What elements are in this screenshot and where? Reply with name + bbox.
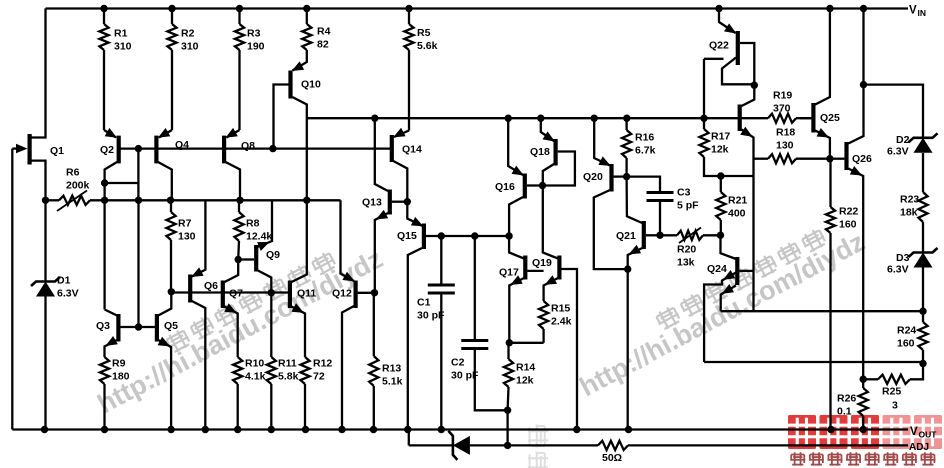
svg-text:Q17: Q17 <box>499 267 519 279</box>
resistor R13 <box>373 293 375 356</box>
svg-text:50Ω: 50Ω <box>602 452 622 464</box>
svg-text:6.3V: 6.3V <box>887 264 909 276</box>
svg-text:Q2: Q2 <box>100 144 114 156</box>
svg-text:ADJ: ADJ <box>909 442 929 453</box>
resistor R25 <box>878 375 910 384</box>
svg-text:D1: D1 <box>57 275 71 287</box>
svg-text:370: 370 <box>773 103 791 115</box>
resistor R18 <box>754 158 769 160</box>
svg-text:R7: R7 <box>178 218 192 230</box>
svg-text:R18: R18 <box>776 127 795 139</box>
node Q12 base dot <box>371 289 378 296</box>
diode D3 <box>922 222 924 253</box>
transistor Q22 <box>736 31 740 65</box>
transistor Q2 <box>117 136 121 164</box>
svg-text:R10: R10 <box>245 358 264 370</box>
wire Q24 emitter1 line <box>704 361 923 363</box>
transistor Q11 <box>288 281 292 309</box>
resistor R21 <box>720 176 722 192</box>
svg-text:IN: IN <box>918 8 927 18</box>
node Q13 base dot <box>404 198 411 205</box>
resistor R10 <box>233 357 242 384</box>
svg-text:Q14: Q14 <box>402 144 422 156</box>
svg-text:400: 400 <box>728 208 746 220</box>
svg-text:R14: R14 <box>516 362 535 374</box>
resistor R26 <box>859 388 868 416</box>
svg-text:R6: R6 <box>66 167 80 179</box>
svg-text:Q18: Q18 <box>530 146 550 158</box>
resistor R19 <box>765 117 768 119</box>
node R24 bottom dot <box>919 360 926 367</box>
node R8 bottom dot <box>235 256 242 263</box>
svg-text:160: 160 <box>839 219 857 231</box>
svg-text:Q7: Q7 <box>229 288 243 300</box>
svg-text:190: 190 <box>247 41 265 53</box>
node Q16 base dot <box>539 182 546 189</box>
svg-text:R21: R21 <box>728 195 747 207</box>
node R16 bottom dot <box>623 173 630 180</box>
resistor 50ohm <box>598 441 628 450</box>
resistor R5 <box>408 9 410 25</box>
transistor Q24 <box>735 257 739 285</box>
diode D1 <box>31 277 60 286</box>
wire Q26 collector to VIN <box>862 9 864 85</box>
transistor Q18 <box>553 139 557 166</box>
wire base line Q3 Q5 <box>118 326 156 328</box>
svg-text:D3: D3 <box>896 252 910 264</box>
svg-text:Q8: Q8 <box>241 140 255 152</box>
svg-text:V: V <box>909 5 917 17</box>
resistor R11 <box>267 357 276 384</box>
svg-text:180: 180 <box>112 371 130 383</box>
svg-text:R22: R22 <box>839 206 858 218</box>
capacitor C1 <box>440 236 442 285</box>
watermark faint mark bottom center <box>528 424 548 447</box>
svg-text:82: 82 <box>317 39 329 51</box>
svg-text:Q21: Q21 <box>616 230 636 242</box>
svg-text:160: 160 <box>897 338 915 350</box>
svg-text:Q4: Q4 <box>175 139 189 151</box>
node R24 top dot <box>919 308 926 315</box>
node Q26 collector dot <box>860 81 867 88</box>
resistor R3 <box>238 9 240 25</box>
transistor Q25 <box>811 103 815 133</box>
wire common base line <box>119 147 392 149</box>
svg-text:R2: R2 <box>181 28 195 40</box>
svg-text:13k: 13k <box>677 257 695 269</box>
node C2 R14 dot <box>504 407 511 414</box>
svg-text:R23: R23 <box>900 194 919 206</box>
resistor R6 variable <box>59 196 90 205</box>
svg-text:Q15: Q15 <box>397 230 417 242</box>
wire R17 node to Q23 emitter line <box>721 175 754 177</box>
resistor R4 <box>306 9 308 25</box>
svg-text:310: 310 <box>181 41 199 53</box>
watermark red text <box>788 415 816 449</box>
resistor R16 <box>625 118 627 130</box>
wire Q2 collector to base line <box>105 182 139 184</box>
node R6 line dots <box>101 197 108 204</box>
node Q1 source dot <box>42 197 49 204</box>
capacitor C2 <box>474 236 476 341</box>
svg-text:R13: R13 <box>382 363 401 375</box>
wire D2 branch top <box>864 85 924 138</box>
svg-text:6.7k: 6.7k <box>635 145 656 157</box>
svg-text:R25: R25 <box>882 386 901 398</box>
svg-text:Q25: Q25 <box>820 112 840 124</box>
node Q21 emitter dot <box>624 265 631 272</box>
wire Q21 emitter to output rail <box>627 269 629 429</box>
transistor Q12 <box>354 281 358 309</box>
svg-text:Q11: Q11 <box>297 288 316 300</box>
svg-text:12k: 12k <box>711 144 729 156</box>
transistor Q8 <box>222 136 226 164</box>
wire vertical from base dot <box>137 200 139 327</box>
svg-text:5.6k: 5.6k <box>417 40 438 52</box>
wire Q24 emitter2 line <box>721 310 923 312</box>
svg-text:12k: 12k <box>516 375 534 387</box>
svg-text:18k: 18k <box>900 207 918 219</box>
svg-text:Q24: Q24 <box>707 263 727 275</box>
svg-text:R5: R5 <box>417 27 431 39</box>
svg-text:3: 3 <box>892 400 898 412</box>
wire second rail <box>307 117 765 119</box>
svg-text:Q5: Q5 <box>164 320 178 332</box>
svg-text:Q22: Q22 <box>709 40 729 52</box>
node Q25 emitter dot <box>826 155 833 162</box>
node bottom rail dots <box>41 426 48 433</box>
node R25 R26 dot <box>860 376 867 383</box>
transistor Q13 <box>388 190 392 215</box>
wire R6 node line <box>46 199 60 201</box>
svg-text:C1: C1 <box>417 297 431 309</box>
transistor Q16 <box>523 174 527 199</box>
transistor Q21 <box>642 221 646 249</box>
node base line dots <box>135 145 142 152</box>
svg-text:V: V <box>910 426 918 438</box>
node Q2 collector dot <box>101 179 108 186</box>
svg-text:4.1k: 4.1k <box>245 371 266 383</box>
transistor Q4 <box>154 136 158 164</box>
wire VIN top rail <box>46 7 909 9</box>
svg-text:6.3V: 6.3V <box>57 288 79 300</box>
transistor Q3 <box>116 314 120 342</box>
svg-text:OUT: OUT <box>919 430 938 440</box>
svg-text:R20: R20 <box>677 244 696 256</box>
diode D2 <box>909 133 938 142</box>
transistor Q1 <box>28 134 32 165</box>
svg-text:5 pF: 5 pF <box>677 200 699 212</box>
transistor Q7 <box>221 281 225 309</box>
diode zener on ADJ line <box>448 431 457 460</box>
resistor R8 <box>238 200 240 212</box>
svg-text:30 pF: 30 pF <box>417 310 445 322</box>
svg-text:R9: R9 <box>112 358 126 370</box>
svg-text:D2: D2 <box>896 134 910 146</box>
svg-text:R17: R17 <box>711 131 730 143</box>
transistor Q6 <box>188 275 192 303</box>
node ADJ line dot <box>504 442 511 449</box>
node C3 bottom dot <box>656 232 663 239</box>
svg-text:R8: R8 <box>246 218 260 230</box>
svg-text:Q26: Q26 <box>852 153 872 165</box>
resistor R23 <box>922 153 924 192</box>
capacitor C3 <box>627 177 660 193</box>
resistor R7 <box>170 200 172 212</box>
svg-text:200k: 200k <box>66 180 90 192</box>
resistor R14 <box>507 343 509 359</box>
svg-text:310: 310 <box>114 41 132 53</box>
svg-text:Q1: Q1 <box>50 145 64 157</box>
svg-text:R11: R11 <box>278 358 297 370</box>
watermark gray text block 1 <box>164 327 193 354</box>
wire left edge vertical <box>11 149 13 430</box>
svg-text:R26: R26 <box>837 393 856 405</box>
node second rail dots <box>371 115 378 122</box>
svg-text:30 pF: 30 pF <box>451 370 479 382</box>
wire base line Q6 Q7 Q11 <box>171 291 290 293</box>
svg-text:Q10: Q10 <box>301 79 321 91</box>
node Q22 collector dot <box>751 82 758 89</box>
transistor Q17 <box>523 256 527 280</box>
svg-text:0.1: 0.1 <box>837 406 852 418</box>
svg-text:R19: R19 <box>773 90 792 102</box>
resistor R17 <box>703 118 705 129</box>
svg-text:R4: R4 <box>317 26 331 38</box>
svg-text:12.4k: 12.4k <box>246 231 272 243</box>
transistor Q9 <box>254 245 258 272</box>
resistor R12 <box>300 357 309 384</box>
transistor Q15 <box>422 224 426 250</box>
node base line A dots <box>168 288 175 295</box>
svg-text:Q13: Q13 <box>362 197 382 209</box>
svg-text:R12: R12 <box>313 358 332 370</box>
resistor R24 <box>922 311 924 322</box>
node R14 top dot <box>506 339 513 346</box>
resistor R20 variable <box>660 234 677 236</box>
svg-text:5.1k: 5.1k <box>382 376 403 388</box>
svg-text:C3: C3 <box>677 187 691 199</box>
svg-text:R15: R15 <box>551 303 570 315</box>
node R20 R21 dot <box>717 232 724 239</box>
node Q3 Q5 base dot <box>135 323 142 330</box>
svg-text:Q6: Q6 <box>204 280 218 292</box>
wire rail2 to Q11 collector <box>306 118 308 200</box>
svg-text:6.3V: 6.3V <box>887 146 909 158</box>
node VIN rail dots <box>100 5 107 12</box>
svg-text:Q20: Q20 <box>583 171 603 183</box>
wire bottom output rail <box>12 428 908 430</box>
node R21 top dot <box>717 172 724 179</box>
watermark dark red serif text <box>790 452 805 465</box>
wire R24 to R25 <box>910 364 923 380</box>
svg-text:72: 72 <box>313 371 325 383</box>
svg-text:5.8k: 5.8k <box>278 371 299 383</box>
transistor Q20 <box>609 164 613 192</box>
wire D3 to node <box>922 268 924 312</box>
svg-text:130: 130 <box>178 231 196 243</box>
transistor Q14 <box>390 135 394 162</box>
svg-text:Q9: Q9 <box>266 249 280 261</box>
svg-text:Q16: Q16 <box>495 181 515 193</box>
svg-text:C2: C2 <box>451 357 465 369</box>
resistor R2 <box>171 9 173 25</box>
svg-text:Q12: Q12 <box>332 288 352 300</box>
node Q15 base line dots <box>438 232 445 239</box>
transistor Q23 <box>738 105 742 132</box>
wire Q9 base <box>238 258 254 260</box>
svg-text:Q19: Q19 <box>532 257 552 269</box>
resistor R22 <box>829 159 831 207</box>
svg-text:130: 130 <box>776 140 794 152</box>
svg-text:R3: R3 <box>247 28 261 40</box>
watermark gray text block 2 <box>654 304 683 331</box>
transistor Q19 <box>557 256 561 280</box>
svg-text:2.4k: 2.4k <box>551 316 572 328</box>
transistor Q10 <box>288 71 292 99</box>
svg-text:R24: R24 <box>897 325 916 337</box>
resistor R1 <box>103 9 105 25</box>
transistor Q5 <box>155 314 159 342</box>
wire ADJ line <box>408 430 410 446</box>
svg-text:R16: R16 <box>635 132 654 144</box>
svg-text:R1: R1 <box>114 28 128 40</box>
resistor R9 <box>100 357 109 384</box>
svg-text:Q3: Q3 <box>96 320 110 332</box>
wire D1 branch <box>44 200 46 281</box>
resistor R15 <box>539 301 548 329</box>
transistor Q26 <box>844 142 848 170</box>
